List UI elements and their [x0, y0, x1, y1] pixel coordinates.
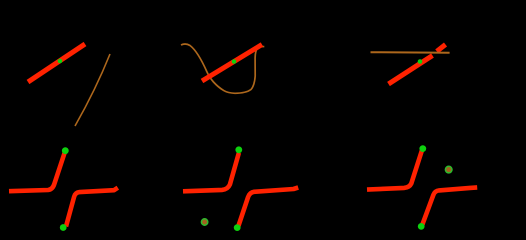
- panel 4: top endpoint dot (green): [62, 147, 69, 154]
- panel 6 (bottom right): upper stroke of step gesture (red): [367, 150, 422, 189]
- panel 6: top endpoint dot (green): [419, 145, 426, 152]
- panel 6: detected corner marker (green ring, brown fill): [445, 166, 452, 173]
- panel 6: lower stroke of step gesture (red): [422, 187, 477, 225]
- panel 5: top endpoint dot (green): [235, 146, 242, 153]
- panel 3: midpoint dot (green): [418, 59, 423, 64]
- panel 1: midpoint dot (green): [58, 59, 63, 64]
- panel 2: fitted segment (red): [202, 45, 262, 82]
- panel 3: raw pen stroke (brown horizontal line): [371, 51, 450, 54]
- panel 4: lower stroke of step gesture (red): [66, 188, 118, 227]
- panel 5: bottom endpoint dot (green): [234, 224, 241, 231]
- panel 5: lower stroke of step gesture (red): [238, 188, 298, 227]
- panel 3: fitted segment upper part (red): [437, 45, 446, 52]
- panel 6: bottom endpoint dot (green): [418, 223, 425, 230]
- panel 4 (bottom left): upper stroke of step gesture (red): [9, 153, 65, 191]
- panel 2: raw pen stroke (brown curve): [181, 44, 264, 93]
- panel 5 (bottom middle): upper stroke of step gesture (red): [183, 153, 239, 192]
- panel 3: fitted segment lower part (red): [389, 56, 433, 85]
- panel 5: detected corner marker (green ring, brown fill): [201, 219, 207, 225]
- panel 4: bottom endpoint dot (green): [60, 224, 67, 231]
- panel 1: raw pen stroke (brown line): [75, 54, 110, 126]
- panel 2: midpoint dot (green): [232, 59, 237, 64]
- panel 1: fitted segment (red): [28, 44, 85, 82]
